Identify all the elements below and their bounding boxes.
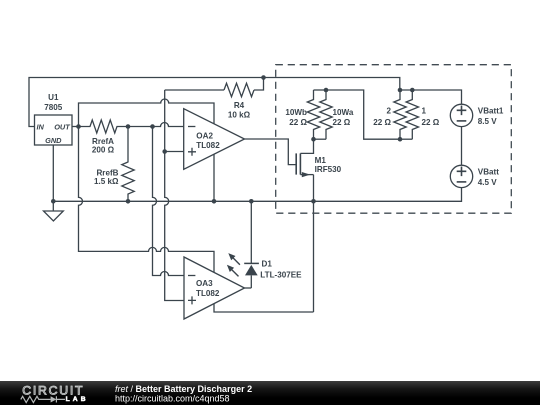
- svg-text:OUT: OUT: [54, 123, 71, 132]
- svg-text:fret / Better Battery Discharg: fret / Better Battery Discharger 2: [115, 384, 252, 394]
- svg-text:22 Ω: 22 Ω: [333, 118, 351, 127]
- svg-text:4.5 V: 4.5 V: [478, 178, 498, 187]
- wire: OA3 V- pin to return wire: [214, 304, 314, 312]
- svg-text:VBatt1: VBatt1: [478, 106, 504, 115]
- node: reference branch junction: [150, 124, 155, 129]
- wire: VBatt1 minus to VBatt plus: [461, 127, 463, 166]
- node: 10W pair bottom junction at M1 drain: [311, 137, 316, 142]
- ground: [44, 211, 64, 221]
- svg-text:1.5 kΩ: 1.5 kΩ: [94, 177, 119, 186]
- svg-text:TL082: TL082: [196, 141, 220, 150]
- svg-text:200 Ω: 200 Ω: [92, 145, 115, 154]
- wire: U1 OUT pin: [72, 126, 79, 128]
- wire: OA2 output to M1 gate: [245, 139, 297, 165]
- svg-text:OA2: OA2: [196, 132, 213, 141]
- wire: feedback column to OA2 and OA3 non-inverting inputs: [165, 90, 184, 301]
- svg-text:10Wb: 10Wb: [285, 108, 307, 117]
- resistor 10Wa 22 ohm: [320, 90, 354, 139]
- node: OA2 V- on ground rail: [212, 199, 217, 204]
- node: RrefA/RrefB divider junction: [126, 124, 131, 129]
- resistor 2 22 ohm: [373, 90, 406, 139]
- wire: R4 right lead up to battery rail: [254, 78, 264, 91]
- resistor 10Wb 22 ohm: [285, 90, 319, 139]
- wire: 10W pair top to pair 2/1 bottom: [326, 90, 400, 139]
- CircuitLab logo: [21, 384, 89, 403]
- wire: feedback node to R4 left lead: [165, 89, 224, 91]
- node: pair 2/1 bottom junction: [398, 137, 403, 142]
- voltage source VBatt 4.5 V: [450, 165, 499, 187]
- svg-text:IRF530: IRF530: [315, 165, 342, 174]
- node: LED branch on ground rail: [249, 199, 254, 204]
- svg-text:IN: IN: [37, 123, 45, 132]
- svg-text:22 Ω: 22 Ω: [289, 118, 307, 127]
- wire: ground rail: [53, 188, 461, 202]
- svg-text:10Wa: 10Wa: [333, 108, 354, 117]
- wire: OA2 V- pin to ground rail: [213, 154, 215, 201]
- svg-text:8.5 V: 8.5 V: [478, 117, 498, 126]
- op-amp OA3 TL082: [184, 257, 245, 319]
- wire: reference node down to OA3 inverting input: [153, 127, 185, 276]
- svg-text:LAB: LAB: [66, 396, 89, 403]
- svg-text:2: 2: [386, 107, 391, 116]
- wire: 5V rail up to OA2 V+ pin: [79, 99, 215, 127]
- svg-text:22 Ω: 22 Ω: [373, 118, 391, 127]
- svg-text:GND: GND: [45, 136, 62, 145]
- svg-text:R4: R4: [234, 101, 245, 110]
- svg-text:LTL-307EE: LTL-307EE: [260, 270, 302, 279]
- node: OA2 non-inverting branch junction: [162, 149, 167, 154]
- node: RrefB on ground rail: [126, 199, 131, 204]
- wire: M1 source down through ground rail to OA3 V- return: [313, 175, 315, 312]
- wire: U1 IN from battery top rail: [29, 78, 400, 127]
- wire: reference node to OA2 inverting input: [128, 123, 184, 127]
- wire: ground rail down to D1 cathode: [250, 201, 252, 263]
- wire: 5V rail down to OA3 V+ pin: [79, 127, 215, 273]
- wire: pair 2/1 bottom bar: [400, 138, 412, 140]
- resistor R4 10k: [224, 83, 254, 119]
- svg-text:TL082: TL082: [196, 289, 220, 298]
- node: ground tap junction: [51, 199, 56, 204]
- wire: OA2 non-inverting input pin: [165, 151, 184, 153]
- wire: OA3 output to D1 anode: [245, 287, 252, 289]
- svg-text:OA3: OA3: [196, 279, 213, 288]
- resistor RrefB 1.5k: [94, 127, 134, 202]
- CircuitLab footer bar: [0, 381, 540, 405]
- node: R4 tap on battery rail: [261, 75, 266, 80]
- svg-text:VBatt: VBatt: [478, 167, 499, 176]
- svg-text:M1: M1: [315, 156, 327, 165]
- voltage source VBatt1 8.5 V: [450, 104, 504, 126]
- svg-text:http://circuitlab.com/c4qnd58: http://circuitlab.com/c4qnd58: [115, 394, 230, 404]
- voltage regulator U1 7805: [35, 93, 73, 145]
- wire: pair 2/1 top bar to VBatt1 plus: [400, 90, 462, 104]
- svg-text:10 kΩ: 10 kΩ: [228, 111, 251, 120]
- dashed boundary box: [276, 65, 512, 214]
- svg-text:22 Ω: 22 Ω: [422, 118, 440, 127]
- wire: U1 GND down to ground symbol: [52, 145, 54, 211]
- svg-text:U1: U1: [48, 93, 59, 102]
- resistor 1 22 ohm: [406, 90, 440, 139]
- op-amp OA2 TL082: [184, 109, 245, 170]
- node: U1 OUT junction: [76, 124, 81, 129]
- node: pair 2/1 top left junction: [398, 88, 403, 93]
- node: pair 2/1 top right junction: [410, 88, 415, 93]
- LED D1 LTL-307EE: [227, 253, 302, 288]
- svg-text:1: 1: [422, 107, 427, 116]
- transistor M1 IRF530: [296, 139, 341, 177]
- node: M1 source on ground rail: [311, 199, 316, 204]
- resistor RrefA 200 ohm: [79, 120, 129, 154]
- node: 10W pair top junction: [324, 88, 329, 93]
- wire: 10W pair bottom bar: [314, 138, 327, 140]
- svg-text:7805: 7805: [44, 103, 63, 112]
- wire: 10W pair top bar: [314, 89, 327, 91]
- svg-text:D1: D1: [262, 259, 273, 268]
